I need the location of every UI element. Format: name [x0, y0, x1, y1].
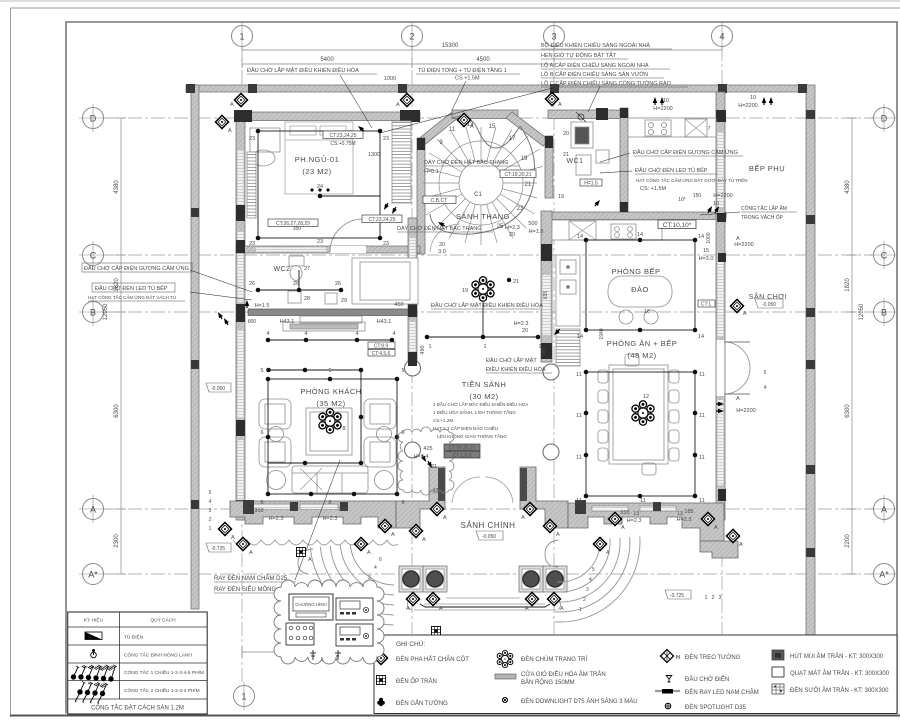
- svg-text:14: 14: [698, 234, 704, 240]
- svg-text:H=2200: H=2200: [734, 242, 753, 248]
- svg-text:5: 5: [328, 368, 331, 374]
- svg-text:LÊN KHÔNG GIAN THÔNG TẦNG: LÊN KHÔNG GIAN THÔNG TẦNG: [437, 432, 507, 439]
- page frame bottom line: [10, 715, 900, 717]
- dim 5400 top: [242, 63, 412, 65]
- grid row D: [105, 117, 873, 119]
- bubble A left: [79, 495, 107, 523]
- leader left mirror: [190, 270, 252, 292]
- living armchair SW: [259, 437, 291, 467]
- svg-text:H=1.5: H=1.5: [529, 229, 544, 235]
- svg-text:23: 23: [249, 136, 255, 142]
- living north wall: [248, 309, 417, 316]
- stair west wall: [417, 138, 425, 254]
- svg-text:LỘ B CẤP ĐIỆN CHIẾU SÁNG SÂN V: LỘ B CẤP ĐIỆN CHIẾU SÁNG SÂN VƯỜN: [541, 70, 648, 78]
- svg-text:A: A: [406, 606, 410, 612]
- den pha diamonds facade: [236, 537, 249, 550]
- den op tran terrace: [297, 548, 306, 557]
- svg-text:4: 4: [266, 331, 269, 337]
- svg-text:5: 5: [260, 368, 263, 374]
- svg-text:DÂY CHỜ ĐÈN HẮT BẬC THANG: DÂY CHỜ ĐÈN HẮT BẬC THANG: [424, 158, 508, 166]
- svg-text:6: 6: [260, 500, 263, 506]
- bedroom north wall: [236, 112, 420, 121]
- svg-text:CT:19,20,21: CT:19,20,21: [505, 172, 532, 178]
- svg-text:21: 21: [431, 464, 437, 470]
- svg-text:2: 2: [409, 32, 414, 42]
- svg-text:28: 28: [304, 296, 310, 302]
- svg-text:H=0.1: H=0.1: [424, 169, 439, 175]
- svg-text:CHUÔNG HÌNH: CHUÔNG HÌNH: [295, 602, 326, 607]
- svg-text:A: A: [743, 311, 747, 317]
- svg-text:15: 15: [489, 124, 496, 130]
- svg-text:TỦ ĐIỆN TỔNG + TỦ ĐIỆN TẦNG 1: TỦ ĐIỆN TỔNG + TỦ ĐIỆN TẦNG 1: [418, 66, 507, 74]
- svg-text:1 ĐIỀU HÒA SẢNH, 1 ĐH THÔNG TẦ: 1 ĐIỀU HÒA SẢNH, 1 ĐH THÔNG TẦNG: [433, 409, 516, 415]
- svg-text:CT:10,10*: CT:10,10*: [663, 222, 692, 229]
- den pha diamonds top: [234, 93, 247, 106]
- intercom revision cloud: [274, 580, 384, 664]
- svg-text:4: 4: [589, 577, 592, 583]
- svg-text:1: 1: [704, 595, 707, 601]
- svg-text:2300: 2300: [114, 534, 120, 548]
- svg-text:BẾP PHỤ: BẾP PHỤ: [749, 163, 785, 173]
- svg-text:21: 21: [513, 279, 519, 285]
- svg-text:ĐẦU CHỜ ĐÈN LED TỦ BẾP: ĐẦU CHỜ ĐÈN LED TỦ BẾP: [635, 167, 708, 174]
- svg-text:(35 M2): (35 M2): [316, 399, 345, 408]
- wc1 toilet dark: [575, 127, 589, 144]
- ghichu col3: [660, 649, 673, 662]
- svg-text:2 ĐẦU CHỜ LẮP MẶT ĐIỀU KHIỂN Đ: 2 ĐẦU CHỜ LẮP MẶT ĐIỀU KHIỂN ĐIỀU HÒA: [433, 400, 528, 407]
- living armchair NE: [364, 399, 396, 429]
- svg-text:(23 M2): (23 M2): [302, 167, 331, 176]
- grid line 2: [411, 47, 413, 634]
- svg-text:695: 695: [543, 291, 549, 300]
- svg-text:H=2.3: H=2.3: [505, 225, 520, 231]
- wardrobe right: [392, 121, 411, 203]
- svg-text:C: C: [881, 251, 888, 261]
- svg-text:A: A: [560, 606, 564, 612]
- svg-text:CT:1: CT:1: [701, 302, 712, 308]
- hall east wall: [541, 211, 552, 362]
- svg-text:4: 4: [719, 32, 724, 42]
- svg-text:4: 4: [355, 331, 358, 337]
- svg-text:19: 19: [558, 194, 564, 200]
- panel right bottom: [336, 624, 373, 646]
- west exterior wall: [236, 112, 245, 520]
- svg-text:26: 26: [293, 281, 299, 287]
- hall west wall: [408, 218, 417, 366]
- bubble A right: [870, 495, 897, 523]
- bubble B right: [870, 298, 897, 326]
- fence wall right: [806, 85, 815, 690]
- living armchair NW: [259, 399, 291, 429]
- bubble 2 top: [402, 22, 423, 50]
- leader right block: [380, 86, 560, 133]
- wc1 shower head: [576, 112, 586, 122]
- svg-text:PHÒNG ĂN + BẾP: PHÒNG ĂN + BẾP: [607, 338, 678, 348]
- east door arcs: [724, 342, 750, 368]
- svg-text:LỘ C CẤP ĐIỆN CHIẾU SÁNG CỔNG: LỘ C CẤP ĐIỆN CHIẾU SÁNG CỔNG TƯỜNG RÀO: [541, 79, 672, 87]
- svg-text:ĐÈN CHÙM TRANG TRÍ: ĐÈN CHÙM TRANG TRÍ: [521, 656, 587, 663]
- svg-text:7: 7: [707, 126, 710, 132]
- svg-text:-0.725: -0.725: [211, 546, 225, 552]
- west entry vestibule wall: [396, 467, 445, 528]
- svg-text:11: 11: [576, 413, 582, 419]
- svg-text:C: C: [90, 251, 97, 261]
- grid row C: [105, 254, 873, 256]
- leader top callout 1: [340, 75, 372, 128]
- chuong hinh unit: [289, 594, 333, 620]
- living wire loop inner: [269, 370, 362, 463]
- svg-text:A: A: [556, 532, 560, 538]
- svg-text:4500: 4500: [476, 57, 490, 63]
- dining table: [609, 365, 668, 464]
- cong tac 2 chieu symbol: [75, 681, 108, 703]
- svg-text:A: A: [558, 102, 562, 108]
- hall dots: [425, 335, 430, 340]
- svg-text:11: 11: [449, 127, 456, 133]
- svg-text:12050: 12050: [859, 303, 865, 320]
- kitchen left cabinets: [556, 255, 580, 326]
- svg-text:H=3.0: H=3.0: [699, 256, 714, 262]
- svg-text:15300: 15300: [442, 43, 459, 49]
- bedside dresser left: [250, 128, 280, 152]
- svg-text:ĐẦU CHỜ CẤP ĐIỆN GƯƠNG CẢM ỨNG: ĐẦU CHỜ CẤP ĐIỆN GƯƠNG CẢM ỨNG: [84, 264, 189, 272]
- fence wall left: [191, 85, 199, 609]
- svg-text:PH.NGỦ-01: PH.NGỦ-01: [295, 155, 340, 164]
- svg-text:12: 12: [643, 394, 649, 400]
- CT box bedroom bottom: [268, 219, 318, 227]
- level box -0.725 right: [665, 590, 691, 599]
- svg-text:3: 3: [551, 32, 556, 42]
- grid row A*: [105, 573, 873, 575]
- west wall window strips: [238, 150, 244, 205]
- svg-text:A: A: [521, 515, 525, 521]
- svg-text:1000: 1000: [706, 232, 712, 243]
- dining south facade wall: [568, 503, 724, 541]
- svg-text:D: D: [881, 114, 888, 124]
- svg-text:ĐÈN PHA HẮT CHÂN CỘT: ĐÈN PHA HẮT CHÂN CỘT: [396, 655, 469, 663]
- svg-text:14: 14: [698, 334, 704, 340]
- bubble A* left: [79, 564, 107, 585]
- svg-text:A: A: [525, 606, 529, 612]
- svg-text:TRONG VÁCH ỐP: TRONG VÁCH ỐP: [741, 214, 784, 221]
- svg-text:11: 11: [699, 413, 705, 419]
- wc1 east wall: [620, 108, 628, 212]
- svg-text:TIỀN SẢNH: TIỀN SẢNH: [462, 379, 507, 389]
- svg-text:A: A: [439, 606, 443, 612]
- svg-text:800: 800: [248, 319, 257, 325]
- porch column pair west: [399, 566, 447, 592]
- svg-text:ĐÈN SƯỞI ÂM TRẦN - KT: 300X300: ĐÈN SƯỞI ÂM TRẦN - KT: 300X300: [790, 687, 889, 694]
- svg-text:27: 27: [304, 266, 310, 272]
- svg-text:310: 310: [338, 507, 347, 513]
- bedroom dots: [256, 129, 261, 134]
- svg-text:SẢNH THANG: SẢNH THANG: [456, 212, 510, 221]
- svg-text:RAY ĐÈN NAM CHÂM D25: RAY ĐÈN NAM CHÂM D25: [214, 575, 288, 582]
- svg-text:PHÒNG BẾP: PHÒNG BẾP: [611, 266, 660, 276]
- svg-text:A: A: [249, 550, 253, 556]
- bubble C right: [870, 241, 897, 269]
- stair door arc to hall: [430, 224, 460, 252]
- grid row B: [105, 311, 873, 313]
- svg-text:H=2.3: H=2.3: [269, 516, 284, 522]
- svg-text:A*: A*: [88, 570, 98, 580]
- svg-text:ĐẢO: ĐẢO: [631, 285, 649, 294]
- svg-text:ĐÈN DOWNLIGHT D75 ÁNH SÁNG 3 M: ĐÈN DOWNLIGHT D75 ÁNH SÁNG 3 MÀU: [521, 698, 638, 705]
- svg-text:6: 6: [379, 557, 382, 563]
- svg-text:23: 23: [317, 239, 323, 245]
- page frame second top line: [10, 7, 900, 9]
- dining chairs left: [598, 370, 608, 461]
- grid line 4: [721, 47, 723, 634]
- level box -0.050 left: [206, 383, 231, 392]
- svg-text:ĐẦU CHỜ LẮP MẶT: ĐẦU CHỜ LẮP MẶT: [486, 356, 537, 364]
- svg-text:580: 580: [541, 348, 547, 357]
- svg-text:H=2200: H=2200: [738, 103, 757, 109]
- wc1 north wall: [548, 110, 628, 119]
- svg-text:20: 20: [563, 131, 569, 137]
- svg-text:H=2.3: H=2.3: [514, 321, 529, 327]
- svg-text:2200: 2200: [845, 534, 851, 548]
- svg-text:CT:19,20,21: CT:19,20,21: [449, 446, 476, 452]
- svg-text:A: A: [90, 505, 96, 515]
- svg-text:4380: 4380: [845, 180, 851, 194]
- svg-text:(30 M2): (30 M2): [469, 392, 498, 401]
- kitchen stove: [611, 224, 636, 239]
- svg-text:DÂY CHỜ ĐÈN HẮT BẬC THANG: DÂY CHỜ ĐÈN HẮT BẬC THANG: [397, 224, 481, 232]
- svg-text:5: 5: [209, 490, 212, 496]
- svg-text:14: 14: [637, 232, 643, 238]
- corridor wire: [268, 339, 392, 341]
- svg-text:6300: 6300: [114, 404, 120, 418]
- living wire loop outer: [268, 379, 397, 494]
- svg-text:PHÒNG KHÁCH: PHÒNG KHÁCH: [300, 387, 361, 396]
- svg-text:H43.1: H43.1: [377, 319, 392, 325]
- cong tac 1 chieu symbol: [71, 665, 117, 682]
- svg-text:6: 6: [260, 430, 263, 436]
- svg-text:HẠT CÔNG TẮC CẢM ỨNG ĐẶT DƯỚI: HẠT CÔNG TẮC CẢM ỨNG ĐẶT DƯỚI ĐÁY TỦ TRÊ…: [636, 176, 748, 183]
- living facade dark posts: [243, 500, 254, 514]
- CT box bedroom top: [323, 131, 363, 147]
- dim 15300 top: [242, 49, 722, 51]
- porch step slab: [414, 598, 556, 610]
- bubble 4 top: [712, 22, 733, 50]
- leader cong tac lap am: [700, 212, 740, 215]
- svg-text:CT:23,24,25: CT:23,24,25: [330, 133, 357, 139]
- leader ray den: [295, 460, 340, 580]
- svg-text:A: A: [367, 550, 371, 556]
- CT box hall pair: [444, 444, 480, 459]
- svg-text:A: A: [606, 550, 610, 556]
- cong tac binh nong lanh symbol: [91, 649, 97, 658]
- svg-text:2: 2: [711, 595, 714, 601]
- island stools: [619, 310, 633, 324]
- svg-text:RAY ĐÈN SIÊU MỎNG: RAY ĐÈN SIÊU MỎNG: [214, 585, 276, 593]
- svg-text:QUẠT MÁT ÂM TRẦN - KT: 300X300: QUẠT MÁT ÂM TRẦN - KT: 300X300: [790, 670, 890, 677]
- chandelier dining 12: [631, 401, 656, 425]
- svg-text:H=2.3: H=2.3: [677, 517, 692, 523]
- svg-text:3: 3: [718, 595, 721, 601]
- svg-text:CS:+0.75M: CS:+0.75M: [330, 141, 355, 147]
- svg-text:CÔNG TẮC LẮP ÂM: CÔNG TẮC LẮP ÂM: [741, 204, 787, 212]
- corridor dots: [266, 338, 271, 343]
- svg-text:ĐÈN SPOTLIGHT D35: ĐÈN SPOTLIGHT D35: [685, 704, 747, 711]
- stair handrail S-curve: [430, 117, 535, 235]
- panel right top: [336, 598, 373, 620]
- svg-text:CS:+1.2M: CS:+1.2M: [433, 418, 453, 423]
- svg-text:6: 6: [328, 500, 331, 506]
- round column hall east bottom: [543, 444, 559, 460]
- bubble 3 top: [544, 22, 565, 50]
- svg-text:1000: 1000: [384, 76, 396, 82]
- bubble 1 top: [232, 22, 253, 50]
- svg-text:10: 10: [663, 98, 669, 104]
- svg-text:450: 450: [394, 302, 403, 308]
- svg-text:H=2200: H=2200: [653, 106, 672, 112]
- svg-text:A: A: [230, 102, 234, 108]
- porch column pair east: [519, 566, 567, 592]
- svg-text:1: 1: [241, 692, 246, 702]
- svg-text:2: 2: [209, 517, 212, 523]
- arrow lights: [216, 97, 773, 469]
- svg-text:1: 1: [483, 344, 486, 350]
- svg-text:QUY CÁCH: QUY CÁCH: [150, 617, 176, 624]
- svg-text:CT:4,5,6: CT:4,5,6: [372, 351, 391, 357]
- svg-text:10: 10: [750, 95, 756, 101]
- svg-text:10*: 10*: [678, 197, 686, 203]
- level box -0.725 left: [206, 543, 231, 552]
- svg-text:11: 11: [699, 372, 705, 378]
- intercom drop symbols: [310, 650, 341, 660]
- svg-text:14: 14: [577, 334, 583, 340]
- svg-text:H=2200: H=2200: [713, 193, 732, 199]
- svg-text:(48 M2): (48 M2): [627, 351, 656, 360]
- svg-text:6300: 6300: [845, 404, 851, 418]
- svg-text:GHI CHÚ:: GHI CHÚ:: [396, 639, 425, 648]
- svg-text:CT:1,2,3: CT:1,2,3: [453, 453, 472, 459]
- svg-text:A: A: [739, 542, 743, 548]
- svg-text:310: 310: [254, 508, 263, 514]
- CT box stair: [500, 170, 536, 178]
- kitchen top counter: [552, 220, 662, 240]
- revision cloud hall: [398, 427, 454, 495]
- level box -0.050 sanh chinh: [476, 531, 503, 540]
- svg-text:3: 3: [209, 508, 212, 514]
- bedroom south wall: [236, 246, 420, 253]
- svg-text:A: A: [443, 515, 447, 521]
- ghichu col1: [374, 651, 387, 664]
- svg-text:B: B: [90, 308, 96, 318]
- stair bay north wall: [452, 110, 518, 119]
- svg-text:HẠT CÔNG TẮC CẢM ỨNG ĐẶT VÁCH: HẠT CÔNG TẮC CẢM ỨNG ĐẶT VÁCH TỦ: [88, 293, 176, 300]
- svg-text:ĐẦU CHỜ LẮP MẶT ĐIỀU KHIỂN ĐIỀ: ĐẦU CHỜ LẮP MẶT ĐIỀU KHIỂN ĐIỀU HÒA: [247, 66, 359, 74]
- grid row A: [105, 508, 873, 510]
- svg-text:21: 21: [563, 152, 569, 158]
- svg-text:17: 17: [509, 136, 516, 142]
- svg-text:HẠT 2.3 CẤP ĐIỆN ĐẢO CHIỀU: HẠT 2.3 CẤP ĐIỆN ĐẢO CHIỀU: [433, 424, 498, 431]
- svg-text:A: A: [396, 102, 400, 108]
- svg-text:14: 14: [577, 234, 583, 240]
- grid line 1: [241, 47, 243, 685]
- tu dien symbol: [85, 632, 102, 640]
- svg-text:A: A: [714, 525, 718, 531]
- svg-text:11: 11: [699, 498, 705, 504]
- tv shelf living north: [300, 316, 362, 323]
- svg-text:B: B: [881, 308, 887, 318]
- svg-text:A: A: [470, 124, 474, 130]
- wc1 washer: [596, 150, 609, 163]
- svg-text:-0.050: -0.050: [211, 386, 225, 392]
- black columns: [234, 108, 726, 516]
- bedroom left closet: [247, 152, 256, 218]
- svg-text:1940: 1940: [599, 328, 605, 339]
- svg-text:4: 4: [304, 331, 307, 337]
- bubble D right: [870, 104, 897, 132]
- bed: [285, 122, 353, 194]
- wc2 shower cabin: [352, 258, 418, 304]
- svg-text:15: 15: [703, 248, 709, 254]
- wc1 H box: [580, 179, 602, 187]
- living armchair SE: [364, 437, 396, 467]
- CT box stair2: [423, 196, 456, 204]
- dining chairs top/bottom: [625, 354, 639, 366]
- svg-text:H: H: [676, 655, 680, 661]
- svg-text:23: 23: [517, 206, 524, 212]
- wc2 toilet: [289, 256, 304, 266]
- svg-text:ĐÈN RAY LED NAM CHÂM: ĐÈN RAY LED NAM CHÂM: [685, 689, 759, 696]
- hall text block small: [433, 400, 528, 439]
- east wall door opening: [717, 340, 725, 396]
- svg-text:A: A: [228, 128, 232, 134]
- svg-text:26: 26: [335, 281, 341, 287]
- svg-text:CS: +1.5M: CS: +1.5M: [640, 186, 667, 192]
- svg-text:H=1.5: H=1.5: [255, 303, 270, 309]
- chandelier hall 19: [471, 277, 496, 301]
- svg-text:-0.725: -0.725: [670, 593, 684, 599]
- svg-text:D: D: [90, 114, 97, 124]
- svg-text:6: 6: [401, 500, 404, 506]
- CT box east wall: [698, 300, 715, 308]
- hall wire: [427, 336, 538, 338]
- spiral stair treads: [423, 127, 543, 245]
- svg-text:ĐẦU CHỜ ĐÈN LED TỦ BẾP: ĐẦU CHỜ ĐÈN LED TỦ BẾP: [95, 285, 168, 292]
- left terrace scallop edge: [233, 540, 398, 545]
- right dim chain: [851, 118, 853, 574]
- svg-text:21: 21: [525, 182, 532, 188]
- svg-text:20: 20: [439, 242, 445, 248]
- svg-text:4: 4: [392, 331, 395, 337]
- svg-text:BẢN RỘNG 150MM: BẢN RỘNG 150MM: [521, 679, 575, 686]
- svg-text:310: 310: [620, 510, 629, 516]
- svg-text:10: 10: [713, 201, 719, 207]
- svg-text:25: 25: [497, 224, 504, 230]
- svg-text:490: 490: [420, 345, 426, 354]
- svg-text:1820: 1820: [845, 278, 851, 292]
- svg-text:-0.050: -0.050: [762, 302, 776, 308]
- svg-text:H=3.4: H=3.4: [414, 454, 429, 460]
- svg-text:1: 1: [428, 344, 431, 350]
- svg-text:2: 2: [583, 597, 586, 603]
- left terrace steps fan: [298, 544, 394, 625]
- dining dots: [584, 370, 589, 375]
- wc2 sink box 28: [288, 291, 301, 303]
- svg-text:185: 185: [684, 509, 693, 515]
- svg-text:12050: 12050: [103, 303, 109, 320]
- stair bay NE diagonal wall: [506, 112, 549, 146]
- svg-text:H=2.3: H=2.3: [627, 518, 642, 524]
- leader top callout 2: [452, 81, 466, 110]
- bubble C left: [79, 241, 107, 269]
- A labels at diamonds: [228, 102, 747, 612]
